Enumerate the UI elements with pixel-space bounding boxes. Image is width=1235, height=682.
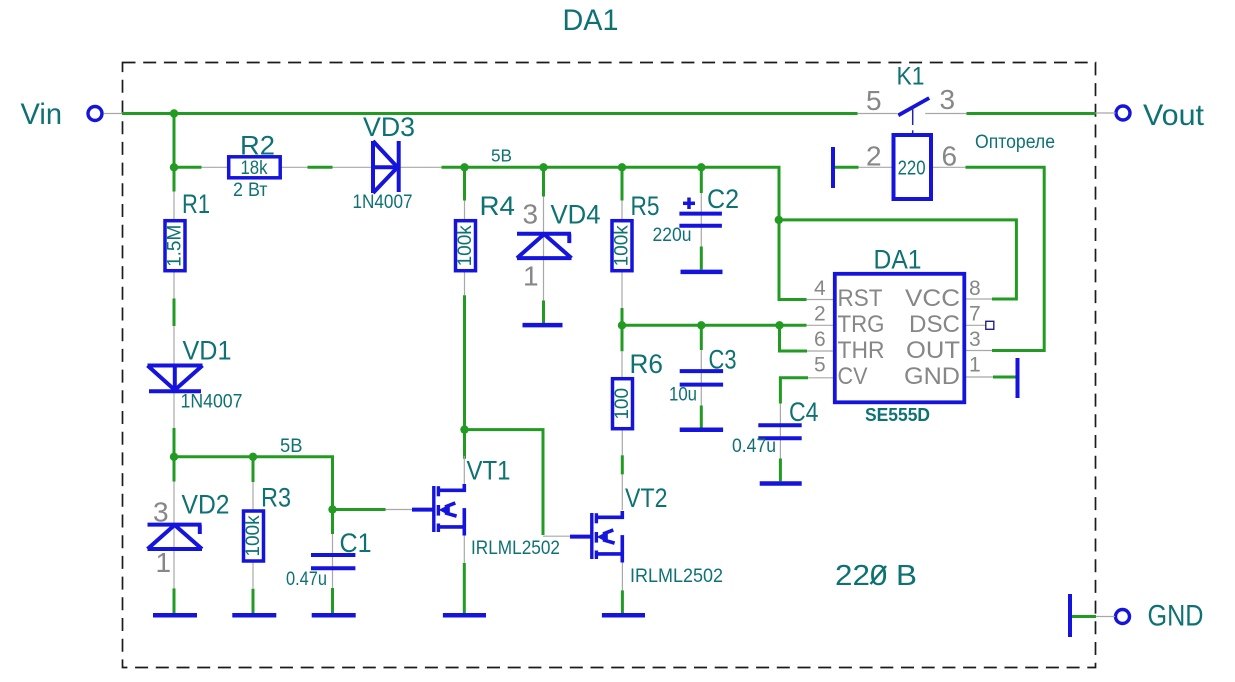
wire VD2 bottom bbox=[173, 588, 176, 613]
svg-text:1N4007: 1N4007 bbox=[181, 392, 243, 413]
wire C1 bottom bbox=[331, 588, 334, 613]
svg-text:1.5M: 1.5M bbox=[165, 225, 186, 267]
svg-text:7: 7 bbox=[969, 303, 981, 326]
pin lead R5 bottom bbox=[621, 269, 623, 308]
svg-text:OUT: OUT bbox=[906, 337, 960, 364]
diode VD1 bbox=[148, 366, 203, 392]
pin lead VT2 drain bbox=[621, 474, 623, 510]
diode VD3 bbox=[373, 141, 399, 193]
svg-text:VT2: VT2 bbox=[625, 483, 668, 513]
node R5 column junction bbox=[618, 163, 626, 171]
svg-text:220u: 220u bbox=[653, 225, 692, 246]
wire C3 top stub bbox=[700, 325, 703, 350]
wire C4 bottom bbox=[779, 459, 782, 482]
ground bar C1 bbox=[312, 613, 356, 618]
wire C3 bottom bbox=[700, 406, 703, 428]
ground bar VD2 bbox=[153, 613, 197, 618]
svg-text:R2: R2 bbox=[240, 131, 275, 161]
node TRG THR junction bbox=[775, 321, 783, 329]
wire THR branch bbox=[780, 325, 808, 351]
ground bar C4 bbox=[760, 481, 802, 486]
svg-text:6: 6 bbox=[942, 141, 958, 172]
pin lead R2 right bbox=[281, 166, 308, 168]
wire R2 to VD3 bbox=[308, 166, 333, 169]
svg-text:SE555D: SE555D bbox=[865, 404, 930, 425]
pin lead 555 TRG bbox=[807, 324, 835, 326]
svg-text:VCC: VCC bbox=[905, 285, 960, 312]
pin lead R3 bottom bbox=[252, 560, 254, 589]
resistor R6 box bbox=[613, 379, 633, 429]
resistor R4 box bbox=[456, 221, 476, 271]
svg-text:5: 5 bbox=[866, 85, 882, 116]
svg-text:0.47u: 0.47u bbox=[732, 436, 776, 457]
svg-text:R3: R3 bbox=[261, 483, 291, 513]
svg-text:1: 1 bbox=[969, 354, 981, 377]
pin lead C2 bbox=[700, 193, 702, 247]
wire VT1 source to ground bbox=[463, 563, 466, 613]
svg-text:VD4: VD4 bbox=[551, 200, 601, 230]
svg-text:DSC: DSC bbox=[909, 311, 960, 338]
svg-text:10u: 10u bbox=[669, 385, 697, 406]
wire C2 bottom bbox=[700, 247, 703, 270]
resistor R1 box bbox=[165, 221, 185, 271]
wire GND stub bbox=[1072, 615, 1096, 618]
wire R1 column from rail bbox=[173, 114, 176, 192]
svg-text:Оптореле: Оптореле bbox=[975, 132, 1055, 153]
ground bar C2 bbox=[681, 270, 723, 275]
transistor VT1 N-MOSFET bbox=[412, 484, 464, 536]
wire Vout rail bbox=[967, 112, 1096, 115]
svg-text:THR: THR bbox=[838, 337, 885, 364]
pin lead R4 top bbox=[464, 201, 466, 223]
wire R5 top stub bbox=[621, 167, 624, 200]
svg-text:K1: K1 bbox=[897, 63, 925, 91]
svg-text:IRLML2502: IRLML2502 bbox=[471, 538, 560, 559]
svg-text:VT1: VT1 bbox=[467, 456, 511, 486]
pin lead VT1 source bbox=[463, 535, 465, 563]
node R6 junction bbox=[618, 321, 626, 329]
pin lead K1 contact 3 bbox=[925, 113, 966, 115]
svg-text:TRG: TRG bbox=[838, 311, 885, 338]
ground bar VT1 bbox=[443, 613, 486, 618]
wire R3 bottom bbox=[252, 589, 255, 613]
svg-text:100k: 100k bbox=[455, 225, 476, 267]
wire TRG rail bbox=[622, 324, 807, 327]
capacitor C2 plates bbox=[679, 214, 722, 226]
pin lead R1 top bbox=[173, 192, 175, 223]
wire VT2 gate branch bbox=[465, 430, 544, 535]
resistor R2 box bbox=[229, 157, 281, 178]
node R4 column junction bbox=[460, 163, 468, 171]
relay K1 coil box bbox=[894, 135, 932, 199]
svg-text:VD3: VD3 bbox=[363, 112, 415, 142]
port Vout terminal circle bbox=[1116, 106, 1130, 120]
capacitor C1 plates bbox=[311, 555, 355, 568]
capacitor C3 plates bbox=[680, 371, 723, 385]
wire VD4 top stub bbox=[542, 167, 545, 196]
wire VD1 to 5V node bbox=[173, 428, 176, 457]
pin lead VT2 source bbox=[621, 562, 623, 590]
wire VD2 top stub bbox=[173, 457, 176, 482]
wire R3 top stub bbox=[252, 457, 255, 482]
svg-text:DA1: DA1 bbox=[563, 4, 619, 37]
resistor R5 box bbox=[612, 221, 632, 271]
svg-text:1: 1 bbox=[523, 261, 539, 292]
wire C1 top stub bbox=[331, 510, 334, 535]
pin lead VD3 anode bbox=[333, 166, 373, 168]
pin lead C1 bbox=[332, 534, 334, 588]
svg-text:RST: RST bbox=[838, 285, 883, 312]
zener VD4 bbox=[517, 234, 572, 258]
node R3 column junction bbox=[249, 453, 257, 461]
svg-text:1N4007: 1N4007 bbox=[353, 192, 413, 213]
svg-text:3: 3 bbox=[940, 84, 956, 115]
pin lead VT1 gate bbox=[386, 509, 413, 511]
wire lower 5V rail bbox=[174, 457, 386, 510]
svg-text:R6: R6 bbox=[630, 349, 664, 379]
wire R6 to VT2 bbox=[621, 455, 624, 474]
common plate bar at 555 GND bbox=[1016, 358, 1020, 398]
wire R5 bottom bbox=[621, 308, 624, 325]
node VD2 column junction bbox=[170, 453, 178, 461]
svg-text:6: 6 bbox=[814, 328, 826, 351]
wire pin 2 stub bbox=[835, 166, 859, 169]
capacitor C4 plates bbox=[758, 425, 801, 438]
svg-text:1: 1 bbox=[156, 547, 172, 578]
pin lead R3 bbox=[252, 482, 254, 511]
svg-text:100k: 100k bbox=[243, 515, 264, 557]
svg-text:4: 4 bbox=[814, 277, 826, 300]
node C2 column junction bbox=[697, 163, 705, 171]
zener VD2 bbox=[148, 525, 203, 549]
node VT1 drain junction bbox=[460, 425, 468, 433]
wire R4 top stub bbox=[463, 167, 466, 200]
svg-text:C4: C4 bbox=[789, 397, 819, 427]
relay K1 actuator link bbox=[912, 108, 914, 126]
node VCC branch junction bbox=[775, 216, 783, 224]
pin lead C4 bbox=[779, 404, 781, 459]
svg-text:2: 2 bbox=[866, 141, 882, 172]
wire K1 pin6 to 555 OUT bbox=[966, 167, 1045, 350]
pin lead R1 bottom bbox=[173, 269, 175, 299]
slashed zero mark bbox=[871, 566, 887, 584]
port Vin terminal circle bbox=[88, 107, 102, 121]
pin lead VD3 cathode bbox=[400, 166, 442, 168]
ground bar VD4 bbox=[523, 323, 563, 328]
IC DA1 SE555D body bbox=[835, 274, 965, 403]
pin lead R4 bottom bbox=[464, 269, 466, 295]
pin lead 555 CV bbox=[808, 377, 835, 379]
svg-text:100k: 100k bbox=[612, 225, 633, 267]
GND common plate bar bbox=[1068, 594, 1072, 637]
pin lead VD2 through bbox=[173, 482, 175, 589]
resistor R3 box bbox=[244, 511, 264, 561]
wire upper 5V rail to 555 RST bbox=[442, 167, 807, 299]
ground bar R3 bbox=[232, 613, 276, 618]
pin lead VT2 gate bbox=[543, 535, 570, 537]
pin lead K1 contact 5 bbox=[858, 113, 898, 115]
pin lead R2 left bbox=[202, 166, 229, 168]
pin lead K1 coil pin 6 bbox=[932, 166, 966, 168]
svg-text:2 Вт: 2 Вт bbox=[233, 180, 268, 201]
svg-text:C2: C2 bbox=[707, 184, 739, 214]
svg-text:0.47u: 0.47u bbox=[286, 569, 327, 590]
capacitor C2 polarity plus bbox=[683, 198, 695, 210]
svg-text:2: 2 bbox=[814, 303, 826, 326]
pin lead C3 bbox=[700, 350, 702, 406]
node R1 tap junction bbox=[170, 109, 178, 117]
ground bar C3 bbox=[680, 427, 723, 432]
svg-text:3: 3 bbox=[523, 199, 539, 230]
svg-text:Vin: Vin bbox=[21, 98, 63, 131]
wire VCC branch bbox=[779, 220, 1017, 299]
node C1 junction bbox=[328, 505, 336, 513]
pin lead VD4 through bbox=[543, 197, 545, 301]
svg-text:18k: 18k bbox=[241, 158, 268, 179]
pin lead Vin to border bbox=[104, 113, 124, 115]
pin lead VD1 cathode bbox=[173, 392, 175, 428]
wire R1 to VD1 bbox=[173, 299, 176, 327]
pin lead 555 THR bbox=[807, 350, 835, 352]
unconnected pin 7 square bbox=[986, 321, 994, 329]
wire VT2 source to ground bbox=[621, 590, 624, 613]
svg-text:VD2: VD2 bbox=[182, 490, 230, 520]
svg-text:5В: 5В bbox=[491, 146, 512, 166]
pin lead 555 RST bbox=[807, 299, 835, 301]
wire Vin top rail bbox=[122, 112, 858, 115]
wire R6 top stub bbox=[621, 325, 624, 351]
svg-text:220: 220 bbox=[898, 158, 926, 180]
pin lead K1 coil pin 2 bbox=[859, 166, 894, 168]
svg-text:R1: R1 bbox=[182, 189, 210, 219]
svg-text:DA1: DA1 bbox=[874, 245, 922, 275]
node VD4 column junction bbox=[539, 163, 547, 171]
pin lead Vout to border bbox=[1095, 112, 1116, 114]
relay K1 switch blade bbox=[898, 98, 929, 115]
ground bar VT2 bbox=[602, 613, 645, 618]
wire R2 left stub bbox=[174, 166, 202, 169]
transistor VT2 N-MOSFET bbox=[570, 511, 622, 563]
node R2 row junction bbox=[170, 163, 178, 171]
svg-text:R5: R5 bbox=[631, 191, 660, 221]
svg-text:GND: GND bbox=[1148, 600, 1204, 633]
wire C2 top stub bbox=[700, 167, 703, 193]
pin lead R5 top bbox=[621, 201, 623, 223]
svg-text:VD1: VD1 bbox=[183, 336, 232, 366]
pin lead 555 OUT bbox=[965, 350, 993, 352]
svg-text:IRLML2502: IRLML2502 bbox=[630, 566, 723, 587]
pin lead 555 GND bbox=[965, 376, 994, 378]
pin lead R6 top bbox=[621, 351, 623, 379]
pin lead 555 VCC bbox=[965, 298, 993, 300]
relay K1 common plate bar at pin 2 bbox=[831, 147, 835, 188]
svg-text:100: 100 bbox=[612, 388, 633, 420]
wire 555 GND pin stub bbox=[993, 376, 1016, 379]
svg-text:8: 8 bbox=[969, 277, 981, 300]
pin lead 555 DSC bbox=[965, 324, 986, 326]
svg-text:Vout: Vout bbox=[1143, 99, 1205, 132]
pin lead VT1 drain bbox=[463, 456, 465, 484]
node C3 junction bbox=[697, 321, 705, 329]
pin lead R6 bottom bbox=[621, 427, 623, 455]
svg-text:CV: CV bbox=[838, 363, 868, 390]
pin lead VD1 anode bbox=[173, 326, 175, 364]
wire VD4 bottom bbox=[542, 301, 545, 324]
svg-text:5В: 5В bbox=[280, 436, 303, 457]
svg-text:R4: R4 bbox=[480, 191, 516, 221]
port GND terminal circle bbox=[1116, 610, 1130, 624]
wire CV branch bbox=[780, 378, 808, 404]
svg-text:3: 3 bbox=[969, 328, 981, 351]
wire R4 bottom long bbox=[463, 295, 466, 459]
svg-text:GND: GND bbox=[904, 363, 960, 390]
svg-text:5: 5 bbox=[814, 354, 826, 377]
pin lead GND to border bbox=[1095, 616, 1115, 618]
